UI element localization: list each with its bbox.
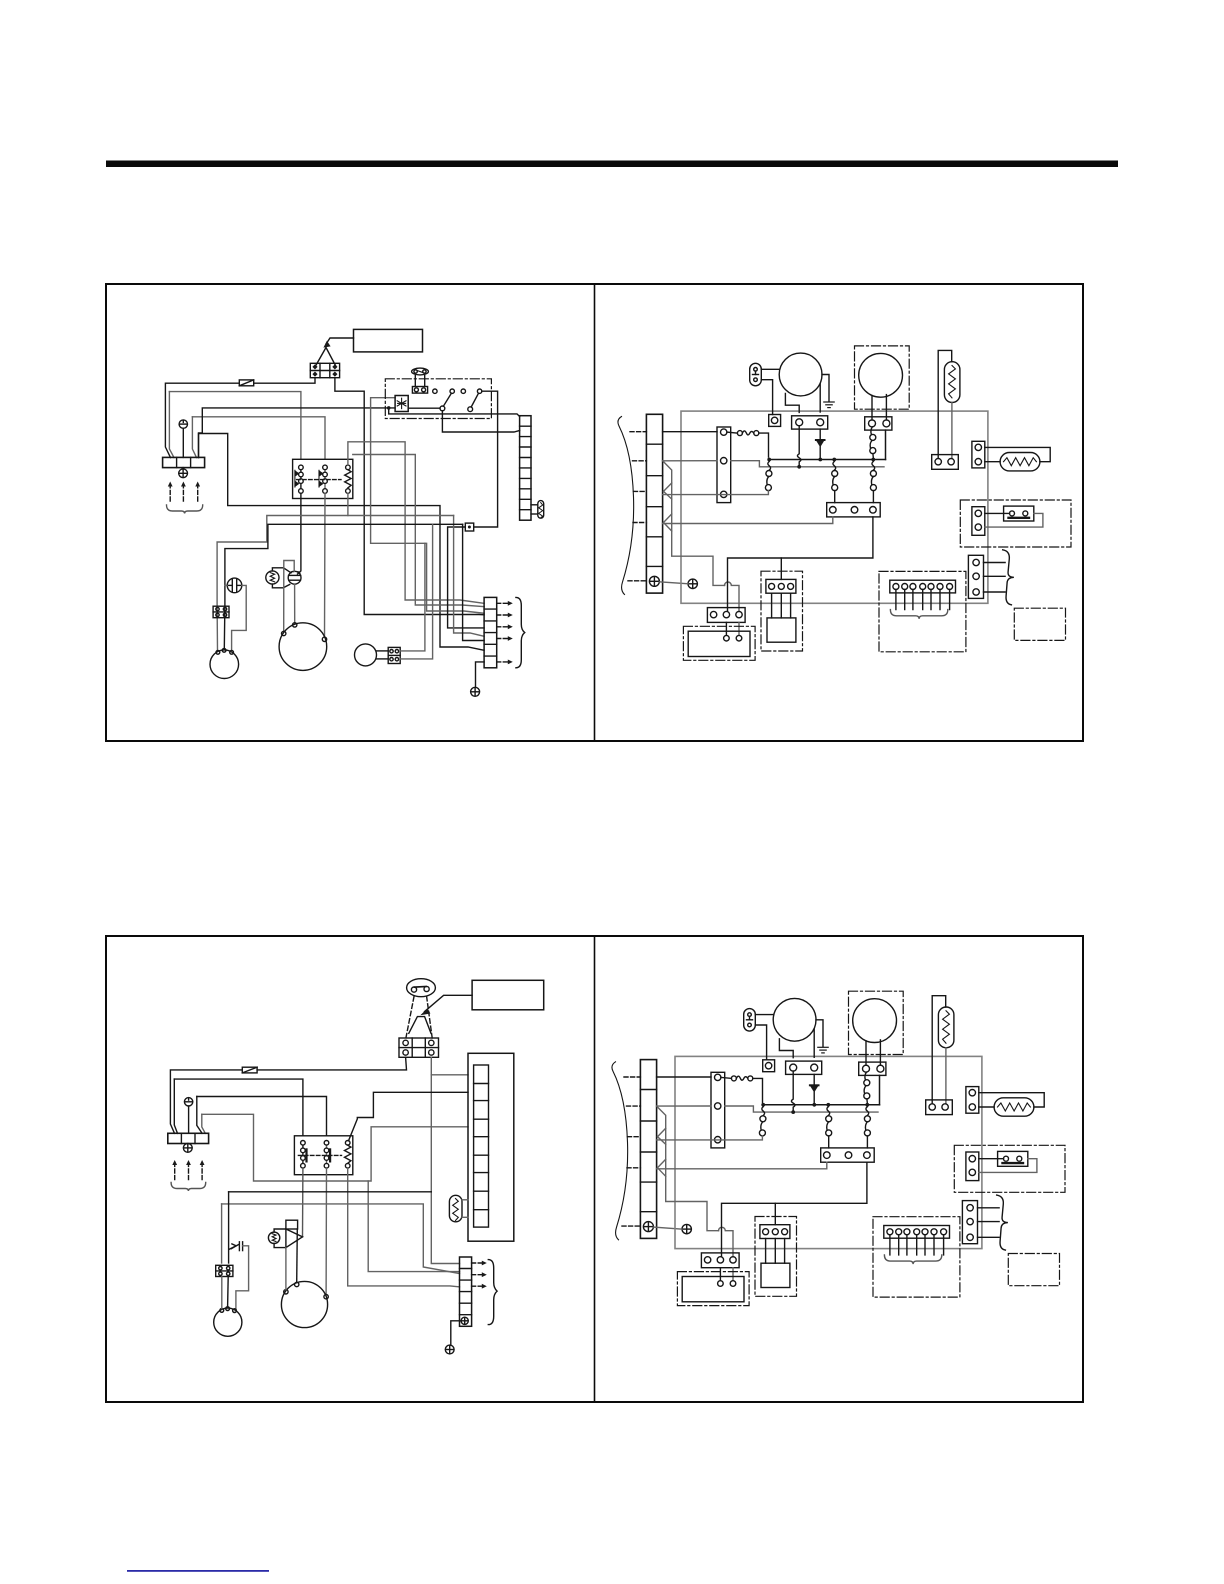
wire: block to fuse to power strip L xyxy=(254,378,315,384)
strip chevron merges and run to terminal block xyxy=(663,461,739,612)
junction square with dot xyxy=(465,523,473,531)
dashed output arrows xyxy=(472,1263,483,1286)
terminal block TB1 xyxy=(310,363,339,377)
outdoor unit circuit (bottom copy) xyxy=(612,991,1065,1305)
dashed output arrows xyxy=(497,603,509,662)
label box (wireless remote) xyxy=(472,980,544,1010)
coupler box with star xyxy=(395,396,408,412)
footer blue rule xyxy=(127,1570,269,1572)
gray wrap wire under relay xyxy=(202,1114,460,1271)
compressor dash-dot box xyxy=(855,346,910,409)
wire: gray to relay pin 2 xyxy=(192,417,325,460)
dashed cable stubs xyxy=(628,432,646,581)
connector K1 xyxy=(213,606,229,618)
switch assembly dash-dot box xyxy=(385,379,491,419)
fan plug xyxy=(750,363,762,386)
wire relay right bottom stub xyxy=(347,493,349,515)
ground from connector xyxy=(476,662,485,687)
control board pin strip xyxy=(474,1065,489,1227)
brace under arrows xyxy=(167,505,203,514)
defrost heater element xyxy=(1000,453,1040,471)
terminal block T3 xyxy=(707,608,745,623)
wire sw1 to strip cell2 xyxy=(408,407,440,409)
T3 to compressor box wires xyxy=(725,622,727,635)
top frame divider xyxy=(594,284,596,741)
brace right of connector xyxy=(488,1260,497,1325)
overload to terminal block wire xyxy=(728,517,873,611)
contact mid to overload xyxy=(832,461,838,502)
wire relay pin3 bottom to sensor xyxy=(298,493,301,574)
case heater wires xyxy=(985,512,1010,514)
relay block RY1 xyxy=(293,459,353,498)
gray2 branch into board xyxy=(368,1127,468,1181)
tent lines xyxy=(409,1017,431,1034)
compressor leads xyxy=(871,396,873,420)
sensor to motor mid pin xyxy=(294,584,296,623)
bottom connector CN2 (6 cells) xyxy=(460,1257,472,1326)
bottom frame divider xyxy=(594,936,596,1402)
motor left pin to triac rail xyxy=(285,1248,287,1290)
thermistor connector xyxy=(932,455,959,470)
magnetic contactor dash-dot box xyxy=(761,571,803,651)
dashed power arrows xyxy=(170,485,198,501)
wire coupler feed and staircase to connector cell1 xyxy=(371,398,485,614)
fuse F2 xyxy=(242,1067,257,1073)
wire relay mid bottom to motor right pin xyxy=(324,493,327,637)
brace under arrows xyxy=(171,1183,206,1192)
wire strip to connector N xyxy=(663,460,717,462)
room thermistor with clip xyxy=(266,568,291,588)
capacitor C2 xyxy=(229,1242,249,1309)
switch blade 1 xyxy=(440,406,445,411)
fan capacitor square terminal xyxy=(769,415,781,427)
rotary switch 2-pin base xyxy=(412,387,427,394)
gray feeder to connector cell2 xyxy=(222,1204,460,1274)
leader arrow xyxy=(425,995,473,1011)
earth terminal in connector xyxy=(461,1317,468,1324)
rotary knob xyxy=(412,368,429,386)
case heater dash-dot box xyxy=(960,500,1071,547)
wire fuse to L bus xyxy=(759,433,769,457)
contact from L bus to strip cell4 xyxy=(663,461,772,494)
pipe sensor circle xyxy=(288,571,301,584)
fan motor FM1 xyxy=(210,648,239,678)
tent lines over terminal block xyxy=(316,348,336,367)
relay right bottom to connector cell3 xyxy=(348,1168,460,1287)
bottom diagram frame xyxy=(106,936,1083,1402)
power strip terminal board xyxy=(163,457,205,467)
fuse on board xyxy=(727,431,759,436)
case heater connector xyxy=(972,507,985,536)
brace for option wires xyxy=(1003,550,1014,605)
motor ground xyxy=(822,375,829,402)
wire: branch under coupler to strip cell1 xyxy=(389,408,520,417)
board thermistor xyxy=(449,1195,468,1222)
block col3 wire down to connector cell1 xyxy=(431,1075,459,1264)
field cable arc xyxy=(618,417,634,595)
wire: block col3 down right xyxy=(335,378,484,615)
contact right to overload xyxy=(870,461,876,502)
fan run wire with hop to N bus xyxy=(797,426,801,465)
varistor by strip xyxy=(531,501,544,519)
second staircase to connector cell1 xyxy=(353,455,484,607)
discharge thermistor xyxy=(944,362,960,403)
main motor M1 xyxy=(279,623,327,671)
compressor terminal box xyxy=(865,417,892,430)
wire: to relay col2 xyxy=(197,1097,327,1136)
signal dashed lines xyxy=(406,996,432,1038)
earth screw above strip xyxy=(184,1098,192,1134)
outdoor terminal strip xyxy=(646,414,662,593)
vertical pin strip (10 cells) xyxy=(520,416,531,521)
bottom connector CN (6 cells) xyxy=(484,597,497,667)
triac symbol xyxy=(286,1220,303,1282)
label box (remote controller option) xyxy=(354,329,423,352)
option connector 3P xyxy=(968,555,1005,598)
thermistor loop wires xyxy=(938,350,952,457)
power thermistor xyxy=(268,1229,286,1248)
ground wire and earth symbol xyxy=(451,1321,461,1345)
wireless remote handset xyxy=(407,979,436,997)
fan motor FM2 xyxy=(214,1307,242,1337)
relay mid bottom to motor pin xyxy=(325,1168,327,1295)
fuse F1 xyxy=(239,380,253,386)
earth link wire xyxy=(659,582,688,584)
capacitor C1 xyxy=(227,578,242,593)
control board outer xyxy=(468,1053,514,1241)
wire relay right top staircase to coupler xyxy=(348,442,484,604)
terminal block TB2 xyxy=(399,1038,439,1057)
vertical feeds to fan connector xyxy=(228,1192,230,1263)
overload to strip wire xyxy=(663,517,833,524)
wire: strip to long black line to coupler box xyxy=(199,408,396,458)
heater loop wires xyxy=(985,447,1050,461)
earth screw below strip xyxy=(183,1144,192,1153)
option empty dash-dot box xyxy=(1014,608,1065,640)
power strip terminal board xyxy=(168,1133,209,1143)
control board outline xyxy=(681,411,988,603)
overload relay 49C xyxy=(827,503,881,517)
top diagram frame xyxy=(106,284,1083,741)
louver motor wires xyxy=(377,650,389,652)
staircase wire pair to fan motor (gray) xyxy=(217,516,454,651)
connector K2 xyxy=(388,647,400,663)
dashed power arrows xyxy=(175,1164,202,1180)
header rule bar xyxy=(106,161,1118,168)
compressor motor xyxy=(859,353,903,397)
motor to terminal box wires xyxy=(785,394,799,413)
strip earth terminal xyxy=(649,576,659,586)
capacitor wires xyxy=(232,585,247,650)
case heater contact box xyxy=(1004,506,1034,521)
N bus xyxy=(731,461,884,467)
relay block RY2 xyxy=(294,1136,352,1175)
staircase wire pair to fan motor (black) xyxy=(224,524,462,649)
switch contact pins row xyxy=(433,389,437,393)
wire sw2 to junction square to connector cell3 xyxy=(474,391,498,527)
external output connector dash-dot box xyxy=(879,571,966,651)
brace right of connector xyxy=(516,597,525,667)
wire strip to connector L xyxy=(663,431,717,433)
chassis earth screw xyxy=(688,579,697,588)
earth symbol xyxy=(471,687,480,696)
black feeder joining cell1 riser xyxy=(229,1191,432,1193)
defrost heater connector xyxy=(972,441,985,468)
relay left bottom to triac xyxy=(302,1168,304,1237)
wire: strip cell3 wrap to bottom connector cell5 xyxy=(199,434,485,651)
louver motor M2 xyxy=(355,644,377,666)
wire: to relay col1 xyxy=(174,1079,303,1136)
leader arrow to terminal block xyxy=(326,338,353,344)
L bus xyxy=(769,459,885,461)
compressor connection dash-dot box xyxy=(683,626,755,660)
wire: gray to relay pin 1 xyxy=(169,392,301,460)
main motor M3 xyxy=(281,1281,328,1327)
wire: block to fuse to power strip xyxy=(257,1057,406,1070)
diode on fan aux wire xyxy=(816,429,825,458)
earth screw below strip xyxy=(179,468,188,478)
earth screw above strip xyxy=(179,420,187,458)
power connector 3P xyxy=(717,427,731,503)
compressor internal protector contact xyxy=(870,427,876,458)
relay right top staircase to board xyxy=(349,1092,469,1141)
junction dot xyxy=(387,406,391,410)
fan terminal box xyxy=(792,416,828,429)
sensor loop wire xyxy=(284,561,295,632)
connector K3 xyxy=(216,1265,233,1276)
plug to motor wires xyxy=(761,368,779,370)
contactor coil feed xyxy=(780,558,782,579)
outdoor fan motor xyxy=(779,353,822,396)
switch blade 2 xyxy=(468,407,473,412)
block col3 wire to board xyxy=(431,1057,468,1075)
